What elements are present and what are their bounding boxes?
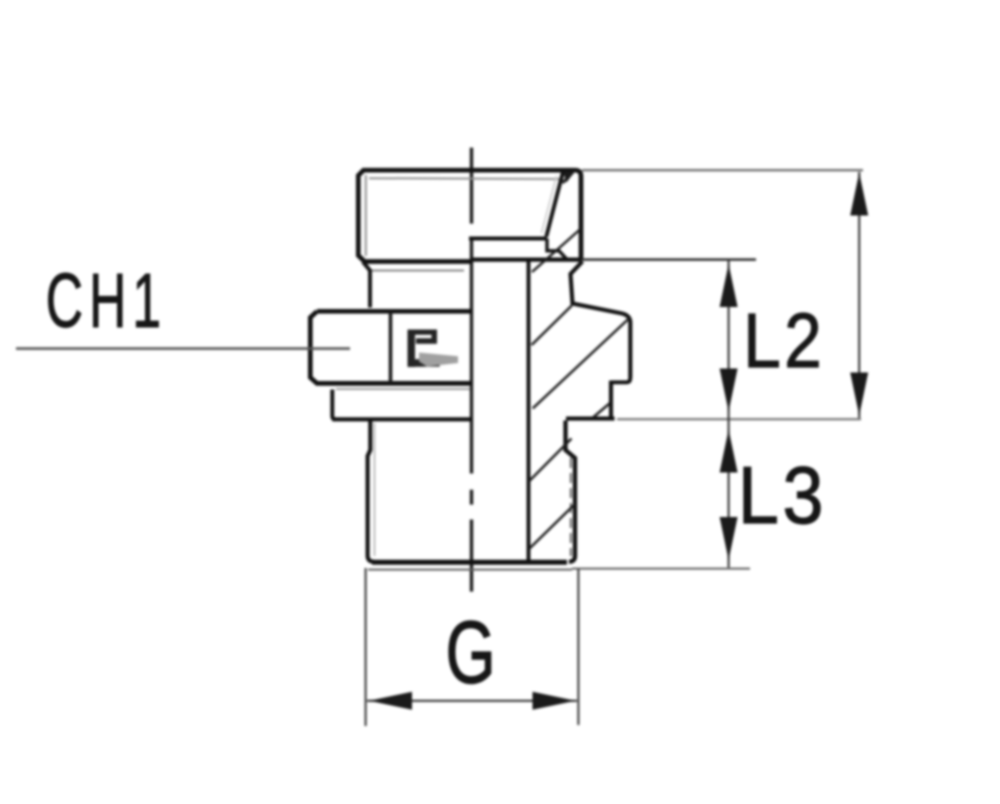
extension line mid L2 top [581, 258, 756, 260]
stud thread minor line left [374, 423, 376, 556]
neck top transition line [372, 270, 464, 272]
neck right edge (section profile) [571, 261, 631, 377]
stud right edge (section) [566, 421, 576, 562]
overall arrow up [850, 173, 868, 216]
socket chamfer slant (section) [546, 170, 563, 236]
nut inner edge top (chamfer transition) [369, 177, 559, 180]
nut inner edge left (chamfer transition) [365, 175, 367, 256]
L3 arrow down [720, 517, 738, 560]
svg-text:L2: L2 [743, 299, 825, 384]
neck left edge [363, 262, 370, 308]
overall arrow down [850, 373, 868, 416]
logo gray swoosh [419, 353, 458, 367]
CH1 leader line [16, 347, 350, 350]
flange bottom edge left [332, 417, 471, 421]
stud left edge [368, 421, 374, 562]
G dimension line [367, 700, 577, 702]
extension line L3 bottom [368, 569, 750, 570]
hex bottom face right (section) [611, 378, 630, 383]
hex nut front face (left half) [310, 311, 471, 383]
centerline axis [470, 148, 473, 592]
extension line L2 bottom / overall bottom [617, 418, 861, 420]
flange left edge [332, 390, 336, 420]
flange right edge (section) [611, 381, 615, 419]
L2/L3 dimension line [728, 260, 730, 568]
bore wall (section) [527, 261, 531, 563]
G arrow left [369, 692, 412, 710]
G arrow right [533, 692, 576, 710]
logo mark on hex facet [408, 330, 441, 368]
G extension line right [577, 569, 579, 725]
svg-text:CH1: CH1 [46, 258, 167, 344]
L2 arrow down [720, 369, 738, 412]
extension line top (overall) [582, 169, 863, 171]
svg-text:G: G [446, 604, 496, 702]
hex facet line [389, 312, 393, 384]
stud bottom edge [372, 560, 567, 565]
svg-text:L3: L3 [738, 451, 827, 541]
stud thread minor line right [570, 458, 572, 556]
nut body outline (top rectangle, exterior left half) [358, 170, 581, 261]
hatch lines [529, 172, 630, 549]
shoulder line right half [472, 257, 581, 261]
G extension line left [365, 568, 367, 726]
L2 arrow up [720, 264, 738, 307]
thread line parallel to chamfer [542, 176, 557, 233]
overall height dimension line [858, 172, 860, 418]
socket bottom face [469, 237, 547, 241]
L3 arrow up [720, 430, 738, 473]
flange top edge left [336, 388, 470, 390]
flange bottom face right (section) [566, 417, 615, 421]
socket step wall [547, 239, 567, 260]
